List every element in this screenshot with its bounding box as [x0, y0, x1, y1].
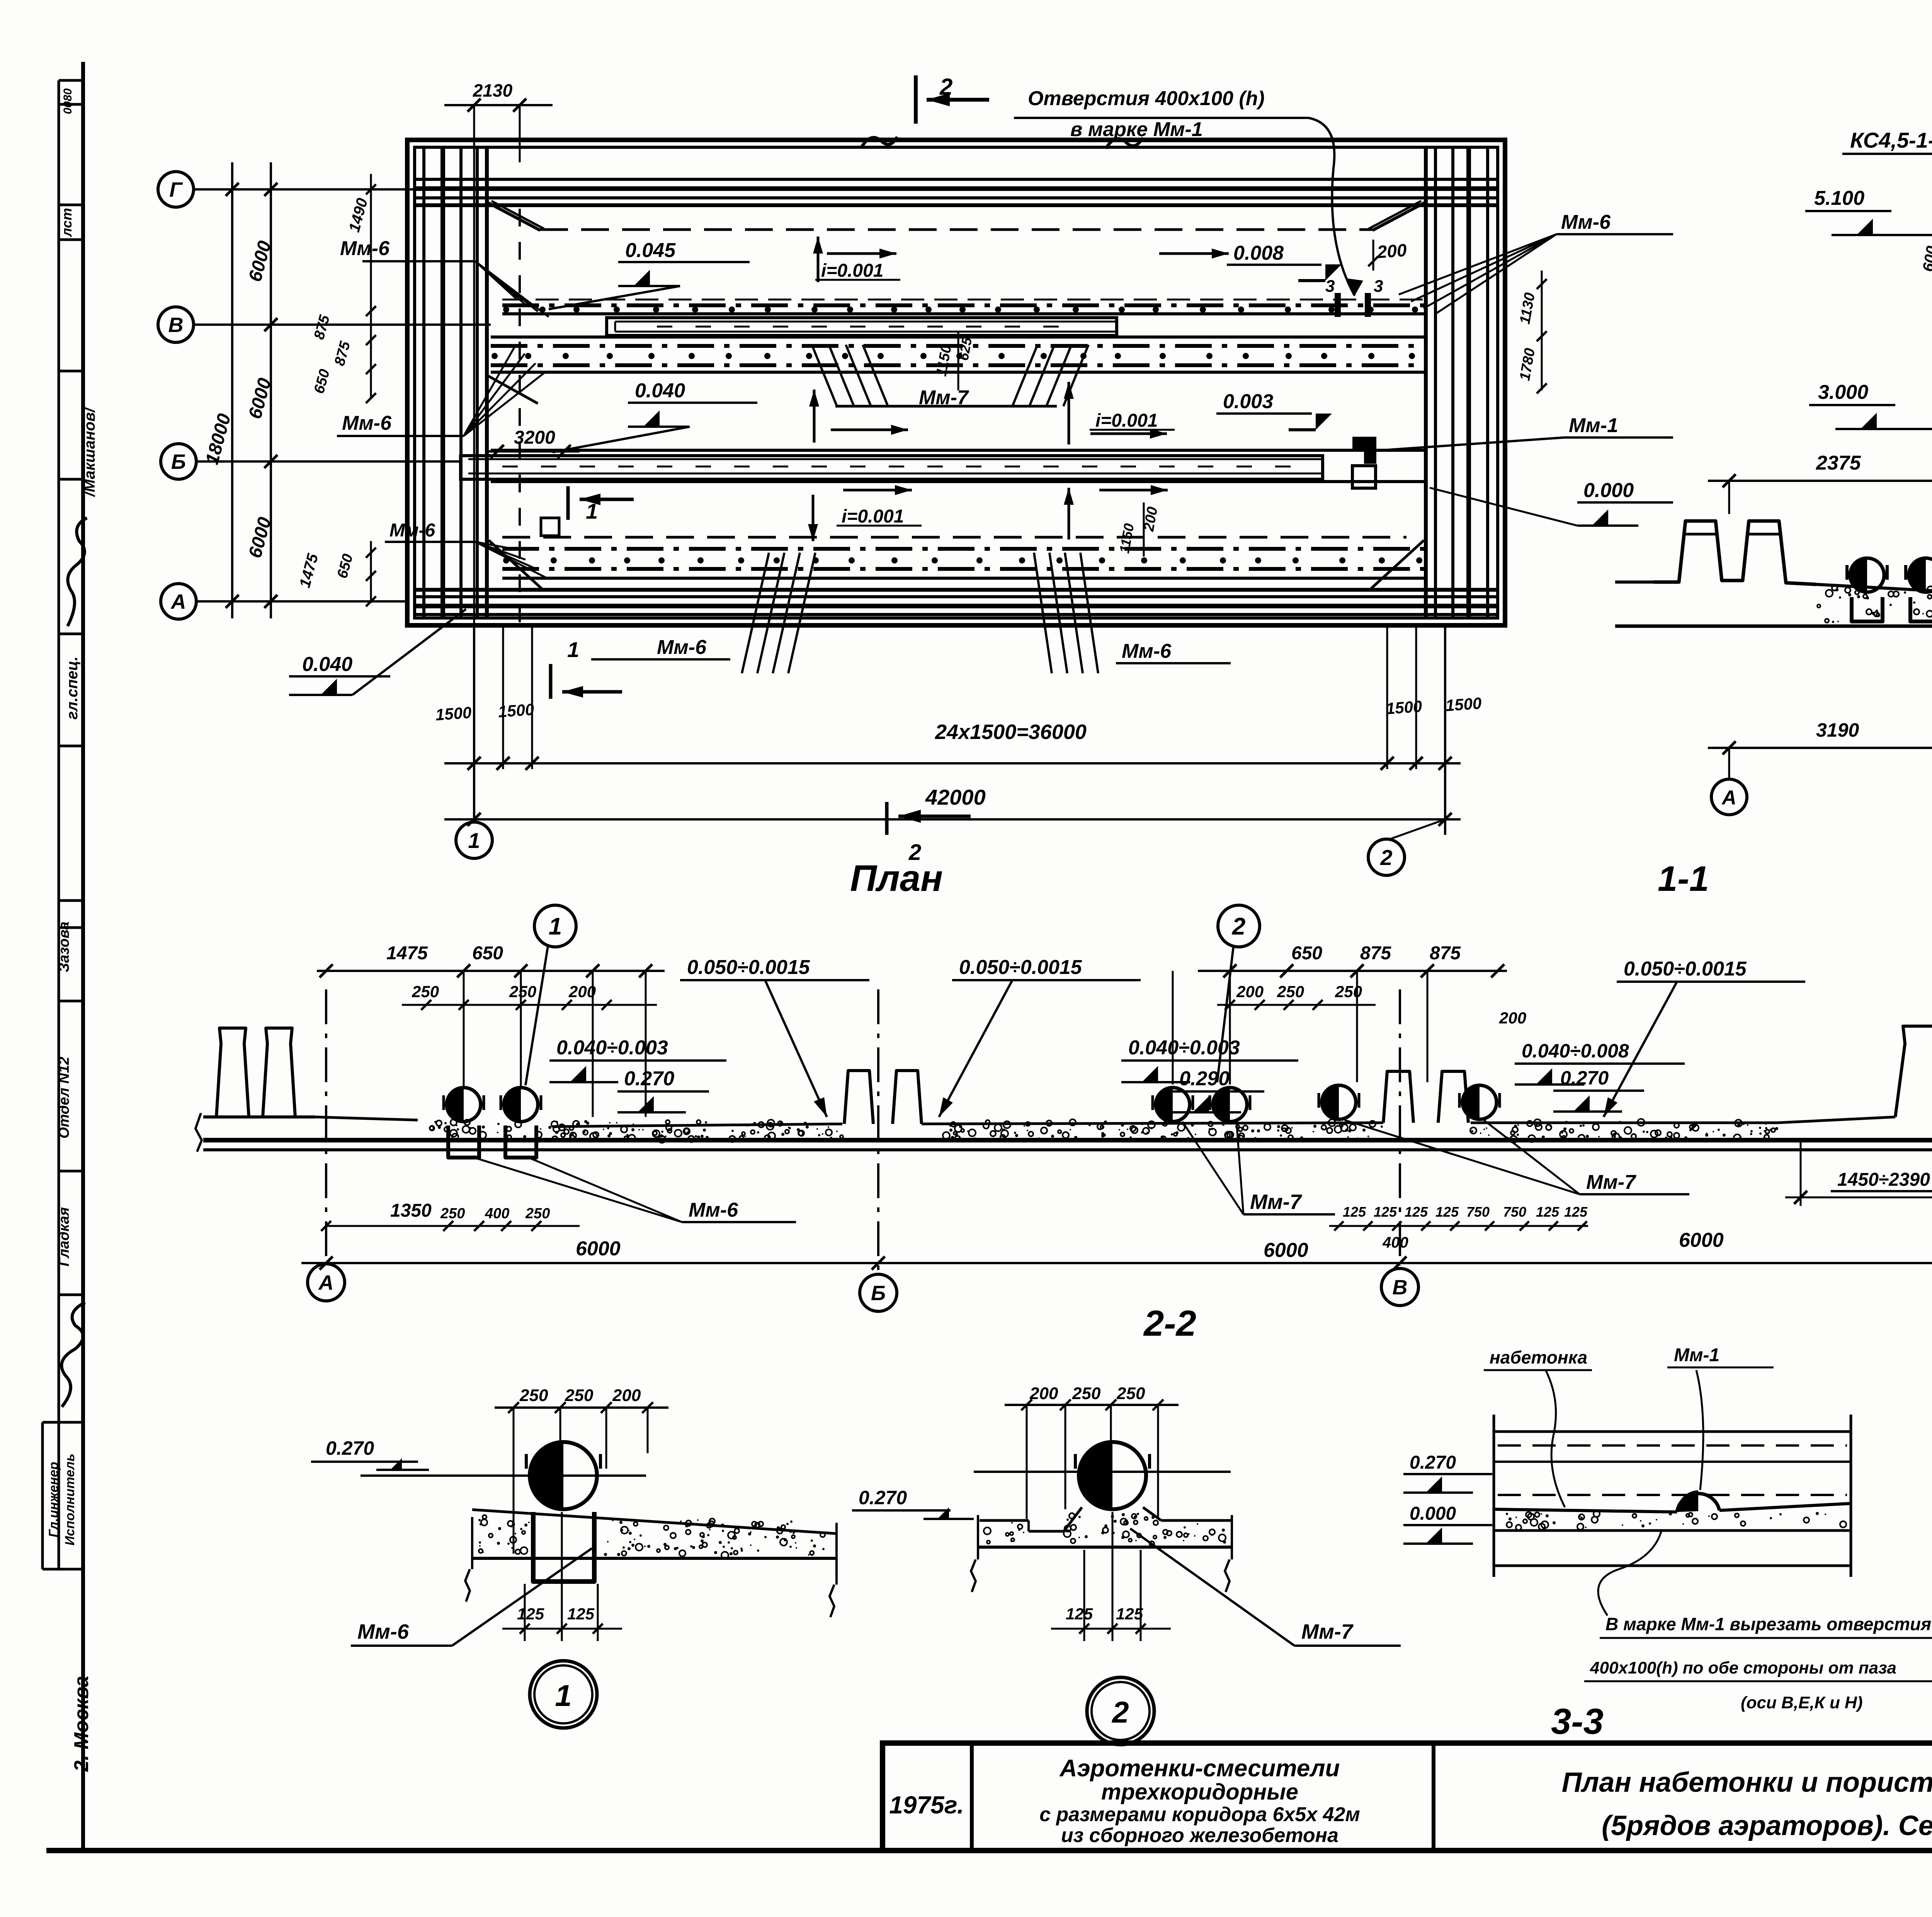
svg-text:Мм-7: Мм-7: [1250, 1190, 1303, 1214]
left dimension line 18000: [231, 162, 233, 618]
svg-text:200: 200: [1376, 240, 1408, 262]
cut mark 1 upper: [566, 486, 570, 520]
vertical dashed line at 2130: [519, 209, 521, 622]
detail circle 1 callout: [534, 905, 576, 947]
svg-text:2: 2: [1380, 845, 1392, 870]
floor slab under pipes: [1816, 584, 1932, 594]
svg-text:875: 875: [1430, 943, 1461, 964]
channel 1 (pocket): [607, 318, 1117, 335]
detail 1 circle: [530, 1661, 597, 1728]
svg-text:875: 875: [1360, 943, 1391, 964]
sheet left border line: [81, 62, 85, 1851]
svg-text:6000: 6000: [1264, 1239, 1308, 1262]
aerator double row 3 (corridor 3): [502, 536, 1406, 539]
middle wall bumps at axis Б: [844, 1071, 873, 1124]
svg-text:Мм-7: Мм-7: [919, 386, 969, 409]
svg-text:(оси В,Е,К и Н): (оси В,Е,К и Н): [1741, 1693, 1862, 1712]
axis circles 2-2: [308, 1264, 345, 1301]
svg-text:(5рядов аэраторов). Сечения: (5рядов аэраторов). Сечения: [1602, 1810, 1932, 1841]
svg-text:Исполнитель: Исполнитель: [63, 1454, 77, 1546]
section 1-1 battlement wall profile: [1654, 521, 1816, 584]
svg-text:из сборного железобетона: из сборного железобетона: [1061, 1824, 1338, 1847]
svg-text:6000: 6000: [1679, 1229, 1724, 1251]
svg-text:В: В: [168, 313, 184, 337]
svg-text:125: 125: [1564, 1204, 1588, 1220]
detail 2 slab: [980, 1519, 1029, 1522]
svg-text:1: 1: [468, 828, 480, 853]
svg-text:3-3: 3-3: [1551, 1701, 1604, 1742]
corridor 2 funnel with diagonal pipe bundles: [835, 405, 1057, 408]
svg-text:2: 2: [939, 74, 952, 100]
svg-text:200: 200: [1499, 1009, 1526, 1027]
svg-text:125: 125: [567, 1605, 595, 1623]
svg-text:250: 250: [412, 982, 439, 1001]
svg-text:24х1500=36000: 24х1500=36000: [935, 720, 1087, 744]
svg-text:Мм-6: Мм-6: [357, 1620, 409, 1643]
svg-text:Отдел N12: Отдел N12: [56, 1057, 72, 1139]
svg-text:1-1: 1-1: [1658, 859, 1709, 899]
svg-text:125: 125: [1536, 1204, 1560, 1220]
svg-text:125: 125: [1343, 1204, 1366, 1220]
svg-text:250: 250: [1277, 982, 1304, 1001]
svg-text:250: 250: [565, 1386, 594, 1405]
svg-text:3.000: 3.000: [1818, 381, 1868, 403]
svg-text:0.040: 0.040: [635, 380, 685, 402]
axis circle 2 bottom: [1391, 819, 1445, 839]
svg-text:125: 125: [1435, 1204, 1459, 1220]
plan bottom wall lines: [415, 588, 1498, 592]
svg-text:Мм-6: Мм-6: [1122, 640, 1172, 662]
top wall break squiggles: [862, 137, 897, 147]
black inlet mark right: [1352, 437, 1376, 464]
pipes in section 1-1: [1850, 558, 1884, 592]
svg-text:В марке Мм-1 вырезать отверсти: В марке Мм-1 вырезать отверстия: [1605, 1614, 1931, 1634]
svg-text:400: 400: [1382, 1234, 1408, 1251]
svg-text:3: 3: [1374, 277, 1383, 296]
svg-text:125: 125: [1374, 1204, 1397, 1220]
detail 3-3 body: [1493, 1415, 1495, 1577]
detail 2 pipe: [974, 1471, 1231, 1473]
svg-text:2: 2: [1111, 1695, 1129, 1729]
svg-text:А: А: [170, 590, 186, 613]
svg-text:200: 200: [568, 982, 596, 1001]
corridor 3 chamfer corners: [489, 540, 542, 589]
pipe at x=3465: [1322, 1085, 1356, 1119]
detail circle 2 callout: [1218, 905, 1260, 947]
small left dims 1490 875 875 650 1475 650: [370, 174, 372, 398]
svg-text:0080: 0080: [61, 88, 74, 114]
svg-text:125: 125: [1116, 1605, 1143, 1623]
axis circle A section 1-1: [1711, 779, 1747, 815]
axis Б: [161, 444, 196, 479]
svg-text:1: 1: [567, 637, 579, 662]
detail 1 slab with slope: [472, 1510, 837, 1534]
svg-text:0.008: 0.008: [1233, 242, 1284, 264]
axis В: [158, 307, 194, 342]
left dimension line 6000s: [270, 162, 272, 618]
svg-text:i=0.001: i=0.001: [842, 506, 904, 527]
svg-text:набетонка: набетонка: [1490, 1347, 1587, 1367]
section 2-2 left battlement wall: [203, 1115, 315, 1119]
cut 3-3 marks in corridor 1: [1335, 293, 1341, 317]
pipe at x=3035: [1156, 1088, 1190, 1122]
svg-text:КС4,5-1-1: КС4,5-1-1: [1850, 128, 1932, 152]
axis 1 witness line inside plan: [473, 162, 475, 625]
svg-text:Гладкая: Гладкая: [56, 1207, 72, 1266]
svg-text:План: План: [850, 858, 943, 899]
svg-text:А: А: [318, 1271, 334, 1294]
svg-text:/Макшанов/: /Макшанов/: [81, 407, 98, 497]
aerator row 1 (corridor 1): [502, 299, 1425, 301]
svg-text:Мм-6: Мм-6: [657, 636, 707, 659]
svg-text:125: 125: [517, 1605, 544, 1623]
svg-text:i=0.001: i=0.001: [821, 260, 883, 281]
svg-text:1: 1: [586, 499, 598, 523]
mounting boxes under left pipes: [448, 1125, 479, 1158]
svg-text:2130: 2130: [473, 80, 513, 100]
svg-text:2: 2: [1232, 913, 1245, 940]
svg-text:250: 250: [525, 1205, 550, 1222]
svg-text:i=0.001: i=0.001: [1095, 410, 1158, 431]
axis А: [161, 584, 196, 619]
svg-text:2. Москва: 2. Москва: [70, 1676, 93, 1772]
rotated dims 1780 1130 right outside: [1541, 271, 1543, 390]
svg-text:250: 250: [519, 1386, 548, 1405]
svg-text:1: 1: [549, 913, 562, 940]
rotated dims 200 1150 in corridor 3: [1143, 502, 1145, 557]
svg-text:1350: 1350: [390, 1200, 432, 1221]
svg-text:1: 1: [555, 1679, 571, 1713]
corridor 1 dashed centreline: [540, 228, 1372, 231]
title block frame: [883, 1743, 1932, 1851]
axis Г: [158, 172, 194, 207]
svg-text:в марке Мм-1: в марке Мм-1: [1070, 118, 1203, 141]
slab stipple band: [778, 1121, 782, 1126]
slab top line across: [315, 1117, 418, 1120]
svg-text:400х100(h) по обе стороны от п: 400х100(h) по обе стороны от паза: [1590, 1658, 1896, 1677]
svg-text:Мм-6: Мм-6: [340, 237, 390, 260]
svg-text:0.270: 0.270: [326, 1437, 374, 1459]
svg-text:125: 125: [1405, 1204, 1428, 1220]
svg-text:6000: 6000: [576, 1238, 621, 1260]
corridor 2 left chamfer: [488, 376, 538, 403]
svg-text:0.040÷0.003: 0.040÷0.003: [556, 1037, 668, 1059]
svg-text:Мм-1: Мм-1: [1674, 1345, 1719, 1365]
svg-text:2-2: 2-2: [1143, 1303, 1196, 1343]
svg-text:750: 750: [1466, 1204, 1490, 1220]
svg-text:Мм-6: Мм-6: [1561, 211, 1611, 233]
pipe at x=1200: [447, 1088, 481, 1122]
svg-text:Мм-7: Мм-7: [1586, 1171, 1636, 1193]
svg-text:0.050÷0.0015: 0.050÷0.0015: [1624, 958, 1747, 980]
svg-text:2375: 2375: [1816, 452, 1861, 474]
svg-text:1475: 1475: [386, 943, 428, 964]
left stamp inner line and ticks: [58, 80, 60, 1569]
dim lines 6000 below 2-2: [301, 1262, 1932, 1264]
aerator double row 2 (wall 1): [491, 335, 1426, 339]
right battlement walls before Г: [1895, 1026, 1932, 1117]
svg-text:В: В: [1393, 1276, 1408, 1299]
svg-text:Б: Б: [871, 1282, 886, 1305]
channel 2 (wall 2): [491, 449, 1426, 452]
svg-text:0.050÷0.0015: 0.050÷0.0015: [687, 956, 810, 979]
svg-text:1500: 1500: [435, 703, 472, 724]
svg-text:125: 125: [1066, 1605, 1093, 1623]
svg-text:200: 200: [612, 1386, 641, 1405]
detail 1 slot box: [533, 1512, 594, 1582]
plan top wall lines: [415, 178, 1498, 181]
svg-text:0.270: 0.270: [624, 1067, 674, 1090]
svg-text:250: 250: [1072, 1384, 1101, 1403]
svg-text:3200: 3200: [514, 427, 555, 448]
svg-text:400: 400: [485, 1205, 509, 1222]
section cut 2 (bottom): [885, 802, 889, 835]
svg-text:Г: Г: [169, 178, 183, 201]
corridor 3 diagonal pipe bundles: [742, 553, 769, 673]
axis circle 1 bottom: [456, 822, 492, 858]
svg-text:200: 200: [1029, 1384, 1058, 1403]
cut mark 1 lower: [549, 664, 553, 699]
svg-text:Мм-1: Мм-1: [1569, 414, 1618, 437]
plan right wall lines: [1486, 147, 1489, 618]
svg-text:3190: 3190: [1816, 719, 1859, 741]
detail 1 pipe: [530, 1442, 597, 1509]
wall bumps near axis В: [1383, 1071, 1413, 1123]
sheet bottom border line: [46, 1848, 1932, 1853]
svg-text:0.050÷0.0015: 0.050÷0.0015: [959, 956, 1082, 979]
svg-text:0.000: 0.000: [1410, 1503, 1456, 1524]
svg-text:200: 200: [1236, 982, 1264, 1001]
svg-text:лст: лст: [59, 208, 75, 237]
svg-text:1975г.: 1975г.: [889, 1791, 964, 1819]
svg-text:0.270: 0.270: [1410, 1452, 1456, 1473]
svg-text:Аэротенки-смесители: Аэротенки-смесители: [1059, 1755, 1340, 1782]
plan left wall lines: [422, 147, 425, 618]
svg-text:Мм-6: Мм-6: [689, 1199, 738, 1221]
svg-text:0.270: 0.270: [859, 1487, 907, 1508]
svg-text:42000: 42000: [925, 785, 986, 809]
svg-text:750: 750: [1503, 1204, 1526, 1220]
svg-text:0.040: 0.040: [302, 653, 352, 676]
svg-text:гл.спец.: гл.спец.: [64, 656, 81, 719]
svg-text:650: 650: [472, 943, 503, 964]
pipe at x=3183: [1213, 1088, 1247, 1122]
svg-text:0.040÷0.003: 0.040÷0.003: [1128, 1037, 1240, 1059]
svg-text:5.100: 5.100: [1814, 187, 1864, 209]
svg-text:1450÷2390: 1450÷2390: [1837, 1170, 1930, 1190]
signature squiggle: [68, 518, 87, 626]
rotated dims 1150 625: [957, 332, 959, 390]
hole note leader curve: [1308, 118, 1355, 296]
svg-text:1500: 1500: [1445, 694, 1482, 715]
svg-text:Гл.инженер: Гл.инженер: [46, 1462, 61, 1537]
svg-text:с размерами коридора 6х5х 42м: с размерами коридора 6х5х 42м: [1039, 1803, 1360, 1826]
axis lines 2-2: [325, 989, 327, 1261]
svg-text:3: 3: [1325, 277, 1335, 296]
svg-text:Мм-7: Мм-7: [1301, 1620, 1354, 1643]
svg-text:Отверстия 400х100 (h): Отверстия 400х100 (h): [1028, 87, 1265, 110]
svg-text:0.290: 0.290: [1179, 1067, 1230, 1090]
plan outer wall rectangles: [407, 140, 1505, 625]
svg-text:Зазова: Зазова: [56, 921, 72, 972]
svg-text:Мм-6: Мм-6: [389, 520, 435, 541]
pipe at x=1348: [504, 1088, 538, 1122]
section 2-2 base lines: [203, 1138, 1932, 1142]
svg-text:0.000: 0.000: [1583, 479, 1634, 502]
svg-text:250: 250: [440, 1205, 465, 1222]
svg-text:0.040÷0.008: 0.040÷0.008: [1522, 1040, 1629, 1062]
detail 2 circle: [1087, 1677, 1154, 1745]
svg-text:650: 650: [1291, 943, 1322, 964]
svg-text:0.045: 0.045: [625, 239, 676, 262]
svg-text:250: 250: [1116, 1384, 1145, 1403]
svg-text:План набетонки и пористых тр: План набетонки и пористых труб: [1562, 1767, 1932, 1798]
svg-text:трехкоридорные: трехкоридорные: [1101, 1779, 1298, 1805]
svg-text:250: 250: [509, 982, 536, 1001]
svg-text:0.270: 0.270: [1560, 1067, 1609, 1089]
svg-text:0.003: 0.003: [1223, 390, 1273, 413]
svg-text:Мм-6: Мм-6: [342, 412, 392, 434]
svg-text:Б: Б: [171, 450, 186, 473]
corridor 1 chamfer corners: [488, 203, 540, 230]
section cut 2 (top): [914, 75, 918, 124]
svg-text:А: А: [1721, 787, 1736, 809]
pipe at x=3829: [1463, 1085, 1497, 1119]
